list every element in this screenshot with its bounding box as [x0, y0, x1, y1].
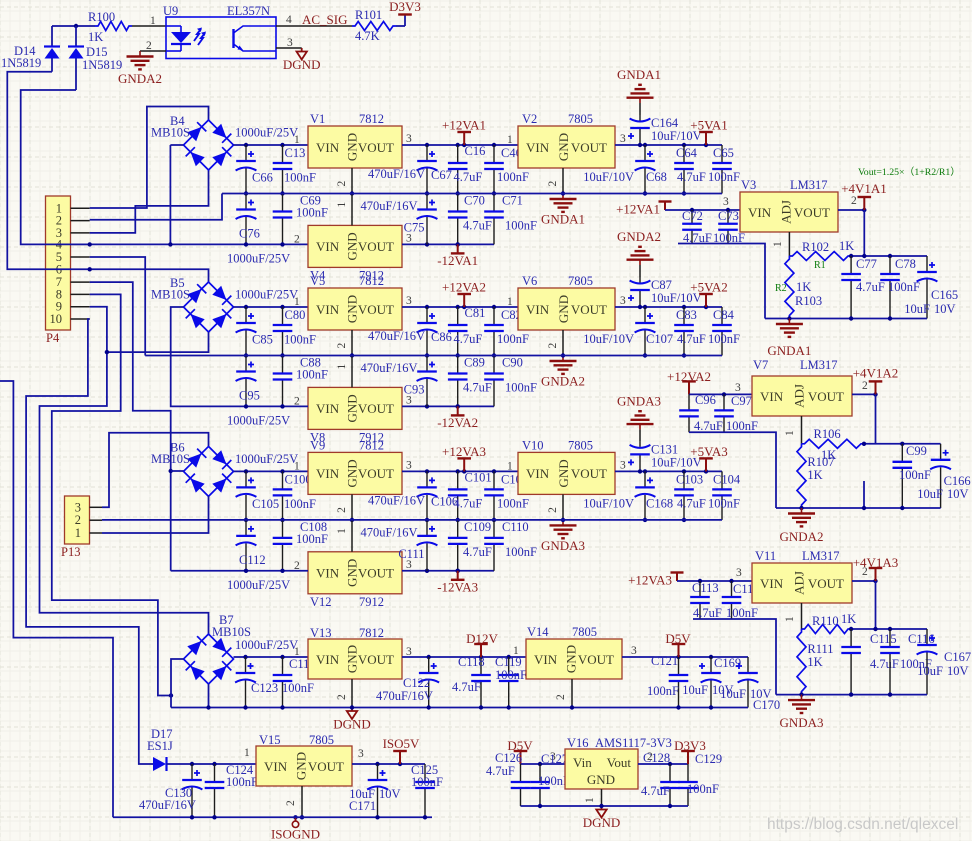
capacitor C89 4.7uF — [448, 356, 468, 407]
svg-text:100nF: 100nF — [497, 496, 529, 510]
svg-text:3: 3 — [406, 295, 412, 307]
svg-text:7912: 7912 — [359, 595, 384, 609]
svg-text:1K: 1K — [841, 612, 856, 626]
B4 left vertex wire — [170, 144, 183, 146]
wire C96 C97 ground rail — [689, 432, 776, 508]
svg-text:10V: 10V — [947, 487, 969, 501]
regulator V2 7805 — [518, 126, 615, 168]
svg-text:V7: V7 — [753, 358, 768, 372]
power D3V3 output — [681, 751, 695, 764]
svg-text:4.7uF: 4.7uF — [870, 657, 899, 671]
svg-text:100nF: 100nF — [497, 170, 529, 184]
svg-text:VIN: VIN — [316, 302, 340, 317]
bridge rectifier B5 — [184, 282, 234, 332]
svg-text:Vout=1.25×（1+R2/R1）: Vout=1.25×（1+R2/R1） — [858, 166, 960, 178]
svg-text:100nF: 100nF — [888, 280, 920, 294]
svg-text:1: 1 — [772, 241, 784, 247]
capacitor C101 4.7uF — [448, 471, 468, 520]
capacitor C115 4.7uF — [841, 629, 861, 695]
svg-text:10uF: 10uF — [917, 664, 943, 678]
wire B7 + output rail — [234, 656, 309, 658]
B6 AC wires from P13 — [102, 433, 209, 508]
capacitor C95 1000uF/25V — [236, 356, 257, 407]
svg-text:100nF: 100nF — [726, 419, 758, 433]
svg-text:U9: U9 — [163, 4, 178, 18]
ground GNDA2 under R107 — [788, 508, 815, 526]
svg-text:3: 3 — [406, 459, 412, 471]
capacitor C70 4.7uF — [448, 194, 468, 245]
svg-text:GNDA2: GNDA2 — [779, 529, 823, 544]
svg-text:C105: C105 — [252, 497, 279, 511]
svg-text:1: 1 — [784, 616, 796, 622]
svg-text:4.7uF: 4.7uF — [694, 419, 723, 433]
power +12VA1 — [462, 143, 466, 147]
svg-text:GNDA2: GNDA2 — [118, 71, 162, 86]
wire V5 output rail — [402, 306, 518, 308]
svg-text:GND: GND — [294, 752, 309, 780]
capacitor C46 100nF — [484, 145, 504, 194]
ground DGND under V16 — [596, 806, 606, 818]
ground DGND — [297, 48, 307, 60]
svg-text:GNDA3: GNDA3 — [779, 715, 823, 730]
svg-text:LM317: LM317 — [790, 178, 828, 192]
svg-text:V3: V3 — [741, 178, 756, 192]
svg-text:D3V3: D3V3 — [674, 738, 706, 753]
svg-text:V14: V14 — [527, 625, 549, 639]
wire V13 gnd pin to DGND — [351, 679, 353, 708]
svg-text:R102: R102 — [802, 240, 829, 254]
capacitor C77 4.7uF — [841, 256, 861, 319]
resistor R110 1K — [802, 625, 852, 634]
svg-text:D5V: D5V — [665, 631, 691, 646]
power D12V — [474, 644, 488, 657]
svg-text:3: 3 — [620, 459, 626, 471]
capacitor C107 10uF/10V — [635, 307, 656, 356]
svg-text:AC_SIG: AC_SIG — [302, 12, 348, 27]
wire V16 gnd pin — [601, 789, 603, 806]
resistor R100 — [95, 22, 132, 31]
capacitor C123 1000uF/25V — [235, 657, 256, 708]
svg-text:VOUT: VOUT — [578, 652, 614, 667]
svg-text:Vout: Vout — [607, 755, 632, 770]
capacitor C87 10uF/10V — [639, 265, 641, 277]
svg-text:+12VA2: +12VA2 — [667, 369, 711, 384]
svg-text:D15: D15 — [86, 45, 108, 59]
svg-text:C83: C83 — [676, 308, 697, 322]
svg-text:R2: R2 — [775, 283, 787, 294]
wire B5 + output rail — [234, 306, 309, 308]
wire stub — [863, 481, 865, 508]
wire V14 output rail — [622, 656, 748, 658]
svg-text:+5VA1: +5VA1 — [690, 118, 727, 133]
resistor R101 — [352, 22, 396, 31]
svg-text:VIN: VIN — [760, 576, 784, 591]
svg-text:GNDA1: GNDA1 — [617, 67, 661, 82]
capacitor C124 100nF — [205, 764, 225, 817]
svg-text:VOUT: VOUT — [358, 140, 394, 155]
svg-text:GNDA2: GNDA2 — [617, 229, 661, 244]
svg-text:C118: C118 — [458, 655, 485, 669]
svg-text:1000uF/25V: 1000uF/25V — [235, 288, 298, 302]
wire C72 C73 ground rail — [678, 244, 765, 319]
wire P4 pin8 to B7 area — [52, 294, 171, 695]
capacitor C130 470uF/16V — [182, 764, 203, 817]
svg-text:1N5819: 1N5819 — [82, 58, 122, 72]
svg-text:3: 3 — [735, 382, 741, 394]
capacitor C106 470uF/16V — [417, 471, 438, 520]
svg-text:VOUT: VOUT — [358, 302, 394, 317]
svg-text:100nF: 100nF — [647, 684, 679, 698]
svg-text:VIN: VIN — [526, 466, 550, 481]
connector P4 — [46, 196, 71, 330]
svg-text:4.7uF: 4.7uF — [641, 784, 670, 798]
bridge rectifier B4 — [184, 120, 234, 170]
svg-text:470uF/16V: 470uF/16V — [361, 199, 418, 213]
capacitor C16 4.7uF — [448, 145, 468, 194]
svg-text:1: 1 — [784, 430, 796, 436]
capacitor C168 10uF/10V — [635, 471, 656, 520]
svg-text:4.7uF: 4.7uF — [463, 381, 492, 395]
svg-text:2: 2 — [547, 343, 559, 349]
capacitor C129 100nF — [678, 764, 698, 806]
wire V3 VOUT to +4V1A1 — [838, 209, 864, 211]
svg-text:100nF: 100nF — [296, 206, 328, 220]
ground GNDA1 under R103 — [776, 319, 803, 337]
svg-text:V10: V10 — [522, 438, 544, 452]
ground rail V16 — [521, 805, 689, 807]
wire V9 gnd pin — [351, 494, 353, 520]
wire V7 output cap rail — [864, 443, 941, 445]
capacitor C111 470uF/16V — [417, 520, 438, 571]
svg-text:100nF: 100nF — [296, 368, 328, 382]
regulator V7 LM317 — [752, 376, 852, 416]
capacitor C13 100nF — [273, 145, 293, 194]
power +12VA2 feed to V7 — [682, 381, 696, 394]
capacitor C117 100nF — [273, 657, 293, 708]
svg-text:DGND: DGND — [333, 717, 371, 732]
svg-text:1: 1 — [150, 15, 156, 27]
svg-text:+12VA3: +12VA3 — [628, 573, 672, 588]
wire V12 gnd pin — [351, 520, 353, 552]
svg-text:1000uF/25V: 1000uF/25V — [227, 413, 290, 427]
svg-text:VOUT: VOUT — [308, 759, 344, 774]
wire P4 pin2 to mid rail 1 — [90, 194, 222, 220]
regulator V14 7805 — [526, 639, 622, 679]
svg-text:C122: C122 — [403, 676, 430, 690]
capacitor C128 4.7uF — [660, 764, 680, 806]
svg-text:470uF/16V: 470uF/16V — [139, 798, 196, 812]
svg-text:7805: 7805 — [568, 112, 593, 126]
svg-text:R106: R106 — [814, 427, 841, 441]
regulator V12 7912 — [308, 552, 402, 594]
svg-text:1: 1 — [336, 202, 348, 208]
capacitor C103 4.7uF — [674, 471, 694, 520]
svg-text:MB10S: MB10S — [151, 452, 190, 466]
svg-text:GND: GND — [556, 295, 571, 323]
svg-text:C167: C167 — [944, 650, 971, 664]
svg-text:VOUT: VOUT — [358, 401, 394, 416]
capacitor C100 100nF — [273, 471, 293, 520]
svg-text:2: 2 — [336, 343, 348, 349]
power D3V3 — [398, 13, 412, 15]
svg-text:10uF: 10uF — [682, 683, 708, 697]
svg-text:10uF/10V: 10uF/10V — [583, 170, 634, 184]
svg-text:C165: C165 — [931, 288, 958, 302]
svg-text:100nF: 100nF — [282, 681, 314, 695]
svg-text:ADJ: ADJ — [779, 200, 794, 224]
svg-text:DGND: DGND — [583, 815, 621, 830]
ground GNDA2 under V6 — [550, 356, 577, 374]
svg-text:10uF: 10uF — [904, 302, 930, 316]
svg-text:VIN: VIN — [526, 140, 550, 155]
diode D17 ES1J — [153, 757, 167, 771]
capacitor C104 100nF — [712, 471, 732, 520]
capacitor C78 100nF — [880, 256, 900, 319]
svg-text:R101: R101 — [355, 8, 382, 22]
svg-text:3: 3 — [620, 133, 626, 145]
svg-text:VOUT: VOUT — [358, 466, 394, 481]
capacitor C96 4.7uF — [679, 394, 699, 432]
wire B4 + output rail — [234, 144, 309, 146]
svg-text:4.7uF: 4.7uF — [486, 764, 515, 778]
capacitor C125 100nF — [415, 764, 435, 817]
svg-text:C119: C119 — [495, 655, 522, 669]
svg-text:MB10S: MB10S — [151, 288, 190, 302]
svg-text:100nF: 100nF — [505, 219, 537, 233]
svg-text:C64: C64 — [676, 146, 698, 160]
svg-text:GNDA3: GNDA3 — [617, 393, 661, 408]
wire B7 bottom vertex — [208, 684, 210, 708]
svg-text:2: 2 — [336, 507, 348, 513]
wire U9 pin 3 to DGND — [276, 47, 302, 49]
regulator V15 7805 — [256, 746, 352, 786]
svg-text:D3V3: D3V3 — [389, 0, 421, 14]
wire P4 pin5 to mid rail 2 — [90, 257, 146, 356]
svg-text:GNDA3: GNDA3 — [541, 538, 585, 553]
ground ISOGND — [293, 815, 297, 819]
mid rail — [244, 518, 248, 522]
svg-text:7812: 7812 — [359, 626, 384, 640]
wire C113 C114 ground rail — [693, 619, 776, 695]
wire P4 pin3 to B4 AC2 — [90, 170, 209, 233]
svg-text:4.7uF: 4.7uF — [463, 545, 492, 559]
svg-text:1K: 1K — [807, 468, 822, 482]
resistor R111 1K — [797, 629, 806, 695]
capacitor C82 100nF — [484, 307, 504, 356]
svg-text:C131: C131 — [651, 442, 678, 456]
svg-text:VOUT: VOUT — [358, 239, 394, 254]
svg-text:LM317: LM317 — [800, 358, 838, 372]
svg-text:4.7uF: 4.7uF — [454, 170, 483, 184]
ground DGND under V13 — [347, 708, 357, 720]
svg-text:1000uF/25V: 1000uF/25V — [227, 578, 290, 592]
capacitor C126 4.7uF — [511, 764, 531, 806]
wire P4 pin9 to B7 AC — [40, 307, 209, 634]
regulator V3 LM317 — [740, 192, 838, 232]
capacitor C84 100nF — [712, 307, 732, 356]
svg-text:470uF/16V: 470uF/16V — [368, 167, 425, 181]
svg-text:3: 3 — [406, 133, 412, 145]
svg-text:100nF: 100nF — [284, 171, 316, 185]
svg-text:4.7uF: 4.7uF — [677, 496, 706, 510]
svg-text:C67: C67 — [431, 168, 452, 182]
svg-text:470uF/16V: 470uF/16V — [368, 329, 425, 343]
capacitor C108 100nF — [273, 520, 293, 571]
svg-text:+12VA1: +12VA1 — [616, 202, 660, 217]
svg-text:10: 10 — [50, 312, 63, 326]
capacitor C80 100nF — [273, 307, 293, 356]
wire V9 output rail — [402, 470, 518, 472]
wire V11 output cap rail — [851, 628, 927, 630]
capacitor C69 100nF — [273, 194, 293, 245]
svg-text:470uF/16V: 470uF/16V — [368, 493, 425, 507]
svg-text:C171: C171 — [349, 799, 376, 813]
svg-text:C115: C115 — [870, 632, 897, 646]
svg-text:R111: R111 — [807, 642, 833, 656]
wire V8 output rail — [402, 405, 494, 407]
resistor R106 1K — [802, 439, 865, 448]
svg-text:V11: V11 — [755, 549, 776, 563]
svg-text:C107: C107 — [646, 332, 673, 346]
svg-text:C81: C81 — [465, 306, 486, 320]
wire V2 gnd pin — [562, 168, 564, 194]
svg-text:10uF/10V: 10uF/10V — [583, 496, 634, 510]
svg-text:C128: C128 — [643, 751, 670, 765]
svg-text:R107: R107 — [807, 455, 834, 469]
svg-text:C164: C164 — [651, 116, 679, 130]
wire B6 + output rail — [234, 470, 309, 472]
svg-text:GND: GND — [556, 133, 571, 161]
svg-text:3: 3 — [620, 295, 626, 307]
svg-text:V6: V6 — [522, 274, 537, 288]
svg-text:V9: V9 — [310, 438, 325, 452]
optocoupler U9 — [166, 17, 276, 59]
capacitor C72 4.7uF — [682, 210, 702, 244]
svg-text:2: 2 — [862, 566, 868, 578]
svg-text:C84: C84 — [713, 308, 735, 322]
capacitor C67 470uF/16V — [417, 145, 438, 194]
svg-text:10V: 10V — [947, 664, 969, 678]
svg-text:2: 2 — [555, 694, 567, 700]
mid rail block2 — [145, 355, 722, 357]
wire D14 to P4 pin6 net — [7, 72, 208, 282]
P4 pin stubs — [71, 207, 90, 209]
capacitor C65 100nF — [712, 145, 732, 194]
svg-text:4: 4 — [286, 14, 292, 26]
capacitor C90 100nF — [484, 356, 504, 407]
svg-text:C99: C99 — [906, 444, 927, 458]
svg-text:V12: V12 — [310, 595, 332, 609]
svg-text:DGND: DGND — [283, 57, 321, 72]
capacitor C131 10uF/10V — [639, 429, 641, 441]
svg-text:100nF: 100nF — [497, 332, 529, 346]
svg-text:V15: V15 — [259, 733, 281, 747]
svg-text:C113: C113 — [692, 581, 719, 595]
svg-text:7812: 7812 — [359, 274, 384, 288]
svg-text:1: 1 — [507, 296, 513, 308]
svg-text:C73: C73 — [718, 209, 739, 223]
svg-text:-12VA1: -12VA1 — [437, 253, 478, 268]
svg-text:100nF: 100nF — [726, 606, 758, 620]
svg-text:C85: C85 — [252, 333, 273, 347]
svg-text:+12VA2: +12VA2 — [442, 280, 486, 295]
diode D15 — [75, 26, 77, 46]
wire V11 VOUT to +4V1A3 — [852, 580, 876, 582]
svg-text:10V: 10V — [379, 787, 401, 801]
svg-text:+4V1A2: +4V1A2 — [853, 366, 899, 381]
svg-text:VOUT: VOUT — [358, 652, 394, 667]
svg-text:C106: C106 — [431, 494, 458, 508]
svg-text:GNDA1: GNDA1 — [767, 343, 811, 358]
svg-text:C169: C169 — [714, 656, 741, 670]
ground rail ISOGND — [113, 816, 432, 818]
svg-text:C80: C80 — [285, 308, 306, 322]
svg-text:P13: P13 — [61, 545, 80, 559]
svg-text:4.7uF: 4.7uF — [677, 170, 706, 184]
svg-text:100nF: 100nF — [296, 532, 328, 546]
resistor R102 1K — [789, 252, 851, 261]
svg-text:100nF: 100nF — [411, 775, 443, 789]
svg-text:ISO5V: ISO5V — [383, 736, 420, 751]
svg-text:VOUT: VOUT — [358, 566, 394, 581]
wire V7 ground rail — [776, 507, 941, 509]
ground GNDA2 above C87 — [627, 247, 654, 265]
svg-text:C93: C93 — [404, 383, 425, 397]
svg-text:C89: C89 — [464, 356, 485, 370]
regulator V6 7805 — [518, 288, 615, 330]
svg-text:4.7uF: 4.7uF — [677, 332, 706, 346]
regulator V9 7812 — [308, 452, 402, 494]
power D5V input to V16 — [514, 751, 528, 764]
svg-text:ES1J: ES1J — [147, 739, 173, 753]
wire R101 to D3V3 — [396, 25, 405, 27]
regulator V11 LM317 — [752, 563, 852, 603]
capacitor C114 100nF — [722, 581, 742, 619]
power -12VA3 — [456, 569, 460, 573]
wire V7 ADJ pin — [801, 416, 803, 444]
wire V8 gnd pin — [351, 356, 353, 388]
capacitor C71 100nF — [484, 194, 504, 245]
svg-text:470uF/16V: 470uF/16V — [361, 361, 418, 375]
svg-text:R110: R110 — [812, 614, 839, 628]
svg-text:2: 2 — [547, 181, 559, 187]
bridge rectifier B7 — [184, 634, 234, 684]
svg-text:GND: GND — [556, 459, 571, 487]
svg-text:R100: R100 — [88, 10, 115, 24]
svg-text:2: 2 — [336, 181, 348, 187]
svg-text:C121: C121 — [651, 654, 678, 668]
svg-text:7805: 7805 — [568, 438, 593, 452]
svg-text:+4V1A1: +4V1A1 — [841, 181, 887, 196]
svg-text:3: 3 — [75, 500, 81, 514]
ground GNDA3 under V10 — [550, 520, 577, 538]
svg-text:VOUT: VOUT — [808, 389, 844, 404]
svg-text:C65: C65 — [713, 146, 734, 160]
svg-text:C127: C127 — [541, 752, 568, 766]
svg-text:C13: C13 — [285, 146, 306, 160]
power +12VA2 — [462, 305, 466, 309]
svg-text:C104: C104 — [713, 472, 741, 486]
svg-text:C103: C103 — [676, 472, 703, 486]
svg-text:V1: V1 — [310, 112, 325, 126]
svg-text:2: 2 — [336, 694, 348, 700]
power -12VA2 — [456, 404, 460, 408]
svg-text:C78: C78 — [895, 257, 916, 271]
capacitor C88 100nF — [273, 356, 293, 407]
capacitor C167 10uF/10V — [917, 629, 938, 695]
svg-text:-12VA3: -12VA3 — [437, 579, 478, 594]
svg-text:VIN: VIN — [316, 566, 340, 581]
